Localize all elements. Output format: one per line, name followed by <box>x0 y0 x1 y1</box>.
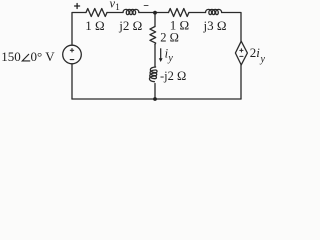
svg-text:1 Ω: 1 Ω <box>85 18 104 33</box>
wire L1 to node A <box>139 12 155 14</box>
voltage source V1 150 angle 0 V (circle) <box>63 45 82 64</box>
node A junction dot <box>153 11 157 15</box>
voltage source V1 plus mark <box>70 49 73 52</box>
wire R1 to L1 <box>107 12 123 14</box>
capacitor C1 -j2 Ohm (drawn as coil, vertical) <box>149 67 157 82</box>
wire 2 Ohm to capacitor <box>154 44 156 67</box>
svg-text:j2 Ω: j2 Ω <box>118 18 142 33</box>
wire L2 to top-right corner down to dependent source <box>222 13 241 42</box>
svg-text:2 Ω: 2 Ω <box>160 30 179 44</box>
angle symbol <box>22 54 30 61</box>
svg-text:2iy: 2iy <box>250 45 266 65</box>
polarity plus mark (top left, for v1) <box>75 4 80 9</box>
svg-text:-j2 Ω: -j2 Ω <box>160 69 186 83</box>
svg-text:0° V: 0° V <box>31 49 56 64</box>
bottom wire <box>72 98 241 100</box>
svg-text:150: 150 <box>1 49 21 64</box>
current arrow iy (downward) <box>159 48 163 62</box>
resistor R2 1 Ohm (top right) <box>169 9 189 17</box>
inductor L2 j3 Ohm <box>206 9 222 14</box>
dependent source 2iy (diamond) <box>235 41 247 65</box>
polarity minus mark (for v1) <box>144 5 148 7</box>
wire bottom-left up to source <box>71 64 73 99</box>
node B junction dot <box>153 97 157 101</box>
svg-text:iy: iy <box>165 46 174 63</box>
voltage source V1 minus mark <box>70 59 74 61</box>
svg-text:j3 Ω: j3 Ω <box>202 18 226 33</box>
wire R2 to L2 <box>189 12 206 14</box>
dependent source plus mark <box>240 49 243 52</box>
resistor R1 1 Ohm (top left) <box>86 9 107 17</box>
resistor R3 2 Ohm (middle, vertical) <box>150 27 156 45</box>
wire top-left corner to R1 <box>72 13 86 46</box>
inductor L1 j2 Ohm <box>123 9 139 14</box>
wire node A down to 2 Ohm resistor <box>154 13 156 27</box>
wire node A to R2 <box>155 12 169 14</box>
wire below dependent source to bottom-right corner <box>240 65 242 99</box>
svg-text:v1: v1 <box>110 0 121 13</box>
wire capacitor to bottom node B <box>154 84 156 100</box>
dependent source minus mark <box>240 55 243 57</box>
